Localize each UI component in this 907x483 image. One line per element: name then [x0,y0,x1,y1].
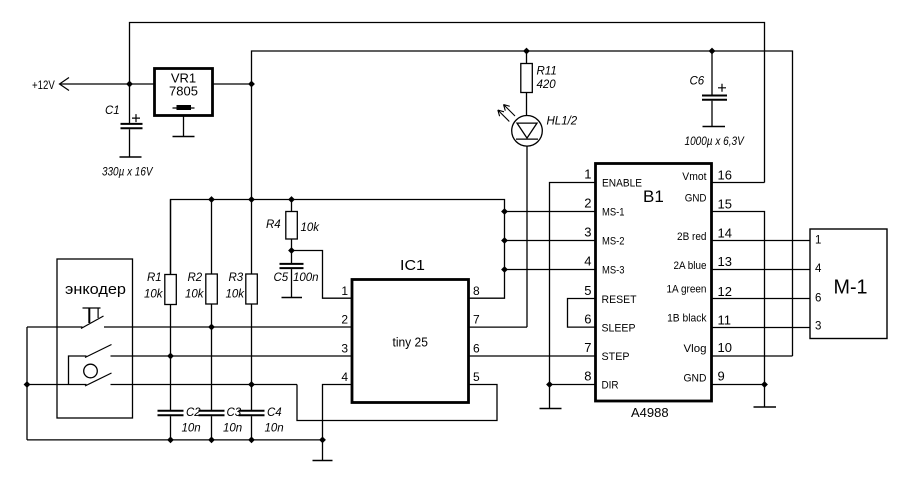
svg-text:энкодер: энкодер [65,281,126,298]
svg-text:6: 6 [584,312,591,327]
ground VR1 [173,116,195,137]
resistor R3 [246,200,257,411]
wire B1 pin10 Vlog [712,355,793,357]
wire B1 pin1 ENABLE [550,183,596,385]
svg-text:5: 5 [473,370,480,384]
B1 right pin labels [667,171,707,385]
svg-text:10n: 10n [265,423,284,435]
node +12V/C1 junction [126,81,133,88]
node VR1 output junction [248,81,255,88]
ground C5 [282,297,303,299]
svg-text:6: 6 [473,342,480,356]
node MS-1 tap [501,208,508,215]
wire B1 pin4 MS-3 [505,269,596,271]
svg-text:8: 8 [473,284,480,298]
wire B1 pin8 DIR [550,384,596,386]
svg-text:1B black: 1B black [667,313,707,325]
wire bottom ground rail [27,439,323,441]
wire 5V pullup rail [171,200,505,299]
wire B1 pin5-pin6 RESET-SLEEP tie [568,299,596,328]
ground C1 [120,156,142,158]
svg-text:1: 1 [815,235,821,247]
node R2/C3 on A line [208,324,215,331]
node R4 bottom [288,247,295,254]
resistor R1 [165,200,177,411]
IC1 pin numbers right [473,284,480,384]
svg-text:6: 6 [815,293,821,305]
svg-text:7805: 7805 [169,84,198,99]
svg-text:9: 9 [718,369,725,384]
IC1 pin numbers left [341,284,348,384]
LED HL1/2 [512,116,543,328]
svg-text:GND: GND [684,373,707,385]
svg-text:3: 3 [584,225,591,240]
node R2 top [208,196,215,203]
M-1 pin numbers [815,235,822,333]
capacitor C4 [239,411,265,440]
svg-text:10k: 10k [144,289,164,301]
wire +12V input [61,83,155,85]
ground C6 [703,126,726,128]
wire +5V rail [252,51,793,356]
svg-text:7: 7 [473,313,480,327]
switch push button [27,308,104,329]
capacitor C6 [702,51,727,127]
svg-text:A4988: A4988 [631,405,669,420]
capacitor C1 [121,84,143,157]
svg-text:C4: C4 [267,407,282,419]
svg-text:1000µ x 6,3V: 1000µ x 6,3V [685,136,745,148]
wire RESET to IC1 pin 1 [292,251,353,299]
wire encoder common vertical [26,327,28,440]
node C3 bottom [208,437,215,444]
svg-text:15: 15 [718,197,732,212]
svg-text:R2: R2 [188,272,203,284]
IC B1 box [596,164,712,402]
svg-text:+12V: +12V [32,80,55,92]
node C4 bottom [248,437,255,444]
wire B1 pin12 to M-1 pin6 [712,298,811,300]
svg-text:4: 4 [815,263,822,275]
ground bottom rail [313,440,333,461]
svg-text:RESET: RESET [602,294,637,306]
svg-text:10k: 10k [185,289,205,301]
resistor R4 [286,200,298,251]
svg-text:2: 2 [584,196,591,211]
svg-text:13: 13 [718,254,732,269]
svg-text:R11: R11 [537,66,557,78]
svg-text:STEP: STEP [602,351,630,363]
svg-text:7: 7 [584,340,591,355]
svg-text:2: 2 [341,313,348,327]
wire encoder A line (IC1 pin 2) [104,326,352,328]
wire encoder B line lower [27,384,297,386]
encoder box [57,259,133,418]
svg-text:11: 11 [718,313,732,328]
connector M-1 box [810,229,887,339]
svg-text:R4: R4 [266,219,281,231]
node R3/C4 on line [248,381,255,388]
wire B1 pin16 Vmot [712,182,765,184]
svg-text:tiny 25: tiny 25 [393,335,428,350]
svg-text:SLEEP: SLEEP [602,323,636,335]
svg-text:R1: R1 [147,272,162,284]
node C2 bottom [167,437,174,444]
wire B1 pin3 MS-2 [505,240,596,242]
svg-text:100n: 100n [293,272,319,284]
svg-text:4: 4 [584,254,591,269]
node C6 top [709,48,716,55]
svg-text:Vlog: Vlog [684,343,707,355]
switch rotary encoder [69,345,112,387]
wire B1 pin11 to M-1 pin3 [712,327,811,329]
resistor R2 [206,200,218,411]
svg-text:8: 8 [584,369,591,384]
svg-text:12: 12 [718,284,732,299]
svg-text:B1: B1 [643,187,664,206]
svg-text:3: 3 [341,342,348,356]
svg-text:C1: C1 [105,105,120,117]
capacitor C3 [199,411,225,440]
svg-text:C2: C2 [186,407,201,419]
ground B1 [754,385,777,408]
svg-text:C5: C5 [274,272,289,284]
node MS-3 tap [501,266,508,273]
node R3 top [248,196,255,203]
node MS-2 tap [501,237,508,244]
wire top +12V rail [130,23,765,183]
svg-text:C6: C6 [690,76,705,88]
regulator VR1 [155,69,213,116]
B1 pin numbers right [718,168,732,384]
node ground rail junction [319,437,326,444]
svg-text:IC1: IC1 [400,257,425,274]
svg-text:HL1/2: HL1/2 [547,116,578,128]
resistor R11 [521,51,533,116]
node R1/C2 on line [167,353,174,360]
svg-text:2B red: 2B red [677,231,707,243]
capacitor C2 [158,411,184,440]
svg-text:Vmot: Vmot [682,171,706,183]
B1 left pin labels [602,178,643,392]
wire encoder B line upper (IC1 pin 3) [111,355,353,357]
wire VR1 output [213,83,252,85]
ground DIR [540,385,562,409]
svg-text:2A blue: 2A blue [674,260,707,272]
svg-text:3: 3 [815,321,821,333]
svg-text:MS-1: MS-1 [602,207,625,219]
svg-text:10n: 10n [223,423,242,435]
wire B1 pin2 MS-1 [505,211,596,213]
svg-text:1A green: 1A green [667,284,707,296]
svg-text:330µ x 16V: 330µ x 16V [102,167,154,179]
wire B1 pin13 to M-1 pin4 [712,269,811,271]
svg-text:4: 4 [341,370,348,384]
wire IC1 pin 4 to ground rail [323,385,353,440]
wire IC1 pin 5 loop to encoder line B [297,385,497,421]
svg-text:16: 16 [718,168,732,183]
B1 pin numbers left [584,167,591,384]
svg-text:420: 420 [537,79,557,91]
wire B1 pin15 GND down [712,212,765,385]
svg-text:C3: C3 [227,407,242,419]
svg-text:ENABLE: ENABLE [602,178,642,190]
+12V arrow [60,78,70,91]
wire IC1 pin 6 to STEP [469,355,596,357]
IC IC1 box [352,280,469,403]
node R4 top [288,196,295,203]
svg-text:DIR: DIR [602,380,619,392]
node B1 ground junction [761,381,768,388]
capacitor C5 [280,251,304,298]
svg-text:MS-3: MS-3 [602,265,625,277]
svg-text:10n: 10n [182,423,201,435]
node encoder common [24,381,31,388]
svg-text:M-1: M-1 [834,277,868,299]
svg-text:MS-2: MS-2 [602,236,625,248]
wire B1 pin9 GND [712,384,765,386]
svg-text:1: 1 [341,284,348,298]
wire B1 pin14 to M-1 pin1 [712,240,811,242]
svg-text:GND: GND [685,193,707,205]
wire IC1 pin 7 to LED [469,326,528,328]
svg-text:1: 1 [584,167,591,182]
svg-text:14: 14 [718,226,732,241]
svg-text:10: 10 [718,340,732,355]
svg-text:10k: 10k [301,222,321,234]
svg-text:10k: 10k [226,289,246,301]
node DIR ground junction [546,381,553,388]
LED arrows [498,105,515,122]
svg-text:5: 5 [584,283,591,298]
svg-text:R3: R3 [229,272,244,284]
node R11 top [523,48,530,55]
